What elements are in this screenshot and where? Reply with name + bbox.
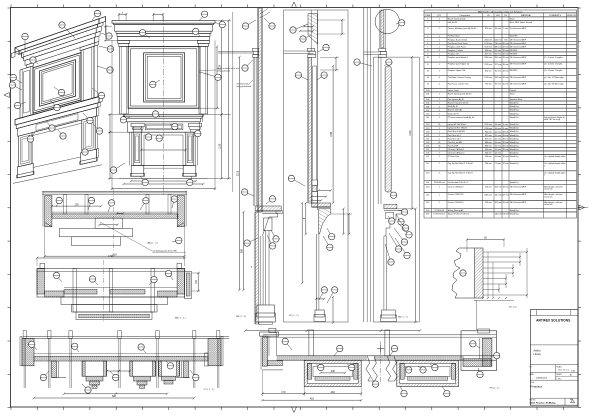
strip1 cleat bracket xyxy=(252,48,258,51)
svg-text:REV: REV xyxy=(570,399,573,401)
svg-text:Cornce_Moulding Liner (A) 40×4: Cornce_Moulding Liner (A) 40×40 xyxy=(448,27,476,30)
svg-text:1: 1 xyxy=(439,28,440,30)
svg-text:n: n xyxy=(544,165,545,167)
strip2 top dimension lines xyxy=(318,19,346,21)
plan centreline with cross xyxy=(380,341,382,384)
balloon callout xyxy=(442,386,447,394)
svg-text:Fireplace_Column: Fireplace_Column xyxy=(448,49,463,52)
svg-text:101: 101 xyxy=(426,94,429,96)
svg-text:1435: 1435 xyxy=(330,131,333,137)
CC post cap xyxy=(118,331,121,339)
strip2 corbel wedge xyxy=(319,209,331,234)
AA hatched band xyxy=(52,214,178,218)
svg-text:18h Veneered MDF: 18h Veneered MDF xyxy=(510,201,527,204)
left border arrow marker xyxy=(4,93,10,98)
svg-text:2: 2 xyxy=(439,163,440,165)
strip2 mantel shelf slab section xyxy=(312,203,331,207)
svg-text:80 mm: 80 mm xyxy=(495,83,501,85)
svg-text:MR MDF: MR MDF xyxy=(510,70,518,72)
strip3 shelf slab xyxy=(384,204,397,209)
axo shelf left end return xyxy=(12,52,16,58)
svg-text:107 mm: 107 mm xyxy=(502,194,509,196)
CC post cap xyxy=(69,331,72,339)
svg-text:n: n xyxy=(544,175,545,177)
svg-text:103 mm: 103 mm xyxy=(495,186,502,188)
strip2 pilaster panel xyxy=(312,66,314,180)
strip1 mantel shelf slab section xyxy=(255,206,281,211)
balloon callout xyxy=(170,124,175,127)
svg-text:10 mm: 10 mm xyxy=(503,156,509,158)
strip3 pilaster board pill xyxy=(385,66,391,192)
balloon callout xyxy=(388,216,392,221)
svg-text:24/08/2023: 24/08/2023 xyxy=(536,378,548,380)
svg-text:4: 4 xyxy=(439,77,440,79)
balloon callout xyxy=(316,364,321,368)
elevation outer extension line xyxy=(232,12,234,192)
svg-text:Cornice CM110-19: Cornice CM110-19 xyxy=(448,201,464,204)
balloon callout xyxy=(43,371,49,378)
balloon callout xyxy=(141,347,146,353)
svg-text:n: n xyxy=(544,158,545,160)
balloon callout xyxy=(385,244,391,262)
svg-text:12: 12 xyxy=(427,70,429,72)
svg-text:18h Veneered MDF: 18h Veneered MDF xyxy=(510,76,527,79)
svg-text:PP ( 1 : 5 ): PP ( 1 : 5 ) xyxy=(289,315,299,317)
CC horizontal band xyxy=(34,356,208,361)
svg-text:Steel MS: Steel MS xyxy=(510,35,518,38)
balloon callout xyxy=(169,274,174,280)
axo crown slab left end face xyxy=(15,48,19,55)
right pilaster capital xyxy=(197,40,209,43)
svg-text:Shelf (A) 40: Shelf (A) 40 xyxy=(448,105,458,108)
BB right dim xyxy=(192,272,200,274)
svg-text:1: 1 xyxy=(439,202,440,204)
BB top dimension xyxy=(37,257,185,259)
svg-text:18 mm: 18 mm xyxy=(503,202,509,204)
svg-text:Cornice CM110-19: Cornice CM110-19 xyxy=(448,185,464,188)
balloon callout xyxy=(13,78,22,84)
axo right leg xyxy=(82,117,95,153)
svg-text:return lots: return lots xyxy=(544,188,552,191)
svg-text:Cap Top Rail 100×27.5 40×20: Cap Top Rail 100×27.5 40×20 xyxy=(448,162,473,165)
svg-text:Bracket Keystone 40×40: Bracket Keystone 40×40 xyxy=(448,102,469,105)
balloon callout xyxy=(267,235,273,246)
svg-text:870 mm: 870 mm xyxy=(485,28,492,30)
balloon callout xyxy=(99,46,111,49)
balloon callout xyxy=(246,20,257,26)
svg-text:3: 3 xyxy=(427,28,428,30)
svg-text:16 mm: 16 mm xyxy=(503,83,509,85)
svg-text:Hearth honed granite 40×40: Hearth honed granite 40×40 xyxy=(448,93,472,96)
balloon callout xyxy=(264,18,272,26)
svg-text:RR ( 1 : 1 ): RR ( 1 : 1 ) xyxy=(490,388,500,390)
CC leg box 3 xyxy=(159,361,180,376)
balloon callout xyxy=(57,275,63,282)
svg-text:(2 s 1) mitre 1 lengths: (2 s 1) mitre 1 lengths xyxy=(544,69,562,72)
balloon callout xyxy=(50,100,57,108)
strip2 wall lines xyxy=(310,10,312,51)
svg-text:BB ( 1 : 2 ): BB ( 1 : 2 ) xyxy=(175,318,186,320)
balloon callout xyxy=(75,346,79,352)
strip2 crown return bracket xyxy=(308,48,315,51)
balloon callout xyxy=(93,279,99,285)
svg-text:2m+ daylate length add-o: 2m+ daylate length add-o xyxy=(544,155,565,158)
svg-text:18h Veneered MDF: 18h Veneered MDF xyxy=(510,45,527,48)
CC post cap xyxy=(193,331,196,339)
svg-text:Pan.Plinct tall 2: Pan.Plinct tall 2 xyxy=(448,137,461,140)
plan posts xyxy=(309,330,314,356)
svg-text:2134: 2134 xyxy=(409,130,412,136)
svg-text:18 mm: 18 mm xyxy=(503,70,509,72)
svg-text:QTY: QTY xyxy=(437,15,442,17)
right leg xyxy=(186,132,194,165)
balloon callout xyxy=(430,364,435,368)
svg-text:Wood(Oa): Wood(Oa) xyxy=(510,110,519,112)
svg-text:13: 13 xyxy=(427,77,429,79)
balloon callout xyxy=(58,130,63,136)
svg-text:10: 10 xyxy=(427,57,429,59)
balloon callout xyxy=(200,72,219,77)
CC top rails xyxy=(23,336,229,338)
balloon callout xyxy=(143,33,150,38)
right leg capital under shelf xyxy=(188,123,201,127)
right base block xyxy=(183,165,196,176)
left outer jamb lines xyxy=(129,132,131,165)
axo overmantel panel xyxy=(33,53,81,114)
parts list table xyxy=(424,10,576,218)
svg-text:Infill 40×40: Infill 40×40 xyxy=(448,21,457,24)
svg-text:Primed: Primed xyxy=(510,89,516,92)
svg-text:Cornice CM107-W: Cornice CM107-W xyxy=(448,193,464,196)
balloon callout xyxy=(108,203,112,212)
svg-text:Wood(Oa): Wood(Oa) xyxy=(510,156,519,158)
balloon callout xyxy=(172,199,174,208)
svg-text:10 mm: 10 mm xyxy=(503,163,509,165)
balloon callout xyxy=(396,214,401,222)
svg-text:Wood(Oa): Wood(Oa) xyxy=(510,142,519,144)
axo shelf frieze xyxy=(18,108,97,137)
svg-text:16 mm: 16 mm xyxy=(503,77,509,79)
svg-text:Wood(Oa): Wood(Oa) xyxy=(510,124,519,126)
strip1 wall board lower xyxy=(255,212,258,324)
svg-text:FILE NO.: FILE NO. xyxy=(530,400,537,402)
AA bottom dimension xyxy=(44,224,46,258)
detail BB plan section through frieze xyxy=(36,255,200,322)
AA top rails xyxy=(42,190,187,192)
svg-text:ends TBC fire early: ends TBC fire early xyxy=(544,118,560,121)
balloon callout xyxy=(24,37,26,53)
balloon callout xyxy=(460,270,466,276)
balloon callout xyxy=(56,201,59,208)
table column lines xyxy=(431,13,433,218)
balloon callout xyxy=(490,355,497,357)
svg-text:1890 mm: 1890 mm xyxy=(484,57,492,59)
svg-text:Component: Component xyxy=(459,14,470,17)
BB right appendage xyxy=(185,272,192,299)
right pilaster body xyxy=(199,47,208,114)
balloon callout xyxy=(172,241,179,243)
strip1 wall hatched board xyxy=(259,8,262,212)
balloon callout xyxy=(140,201,146,210)
plan right corner L detail xyxy=(461,331,497,371)
balloon callout xyxy=(199,14,205,21)
W bottom ticks xyxy=(482,297,484,299)
svg-text:178: 178 xyxy=(75,203,80,206)
svg-text:312: 312 xyxy=(426,202,429,204)
svg-text:Wood(Oa): Wood(Oa) xyxy=(510,128,519,130)
balloon callout xyxy=(285,341,292,350)
svg-text:CC ( 1 : 2 ): CC ( 1 : 2 ) xyxy=(204,389,215,391)
svg-text:127: 127 xyxy=(426,156,429,158)
CC post cap xyxy=(217,331,220,339)
balloon callout xyxy=(318,48,326,53)
shelf end returns xyxy=(123,114,125,122)
svg-text:160 mm: 160 mm xyxy=(495,77,502,79)
balloon callout xyxy=(303,35,311,39)
balloon callout xyxy=(190,370,196,378)
svg-text:Wood(Oa): Wood(Oa) xyxy=(510,163,519,165)
svg-text:160 mm: 160 mm xyxy=(495,57,502,59)
elevation vertical centerline xyxy=(163,16,165,196)
top border arrow marker xyxy=(292,2,297,8)
AA stepped shelf edge xyxy=(59,228,132,237)
balloon callout xyxy=(193,134,198,137)
svg-text:Fireplace panel blown cl: Fireplace panel blown cl xyxy=(448,56,469,59)
strip3 corbel steps xyxy=(384,210,402,236)
shelf frieze centre tablet xyxy=(145,124,183,130)
balloon callout xyxy=(140,176,145,182)
balloon callout xyxy=(245,60,253,68)
address cell xyxy=(530,364,578,366)
svg-text:1700×88 mm: 1700×88 mm xyxy=(434,181,446,184)
svg-text:PJ Rose 10m: PJ Rose 10m xyxy=(448,156,460,158)
AA batten xyxy=(64,195,67,214)
AA batten xyxy=(146,195,149,214)
AA centreline xyxy=(112,189,114,252)
svg-text:SHEET: SHEET xyxy=(557,374,562,376)
svg-text:18h Veneered MDF: 18h Veneered MDF xyxy=(510,63,527,66)
svg-text:852 mm: 852 mm xyxy=(485,70,492,72)
axo frieze band xyxy=(25,38,94,66)
balloon callout xyxy=(33,60,38,64)
balloon callout xyxy=(101,33,109,36)
AA left end block xyxy=(45,196,52,227)
balloon 1 overmantel panel xyxy=(153,80,160,84)
balloon callout xyxy=(404,366,409,370)
balloon callout xyxy=(190,176,192,182)
svg-text:185 mm: 185 mm xyxy=(495,194,502,196)
CC leg box 1 xyxy=(82,361,107,376)
plan box 2 (right leg section) xyxy=(397,360,459,386)
plan left corner return xyxy=(260,332,279,336)
vertical section detail 2 (section through mantel leg) xyxy=(284,10,353,324)
axo crown shelf slab xyxy=(15,19,99,52)
strip2 dims mid xyxy=(332,66,334,203)
strip2 wall hatched board xyxy=(309,58,312,203)
svg-text:1728: 1728 xyxy=(108,255,114,258)
svg-text:(2 s 1) mitre 1 lengths: (2 s 1) mitre 1 lengths xyxy=(544,63,562,66)
AA right mitre xyxy=(177,223,184,227)
svg-text:Wood(Oa): Wood(Oa) xyxy=(510,106,519,108)
svg-text:248: 248 xyxy=(331,391,336,394)
axo crown band1 end xyxy=(19,51,22,56)
balloon callout xyxy=(149,137,152,140)
strip3 detail circle xyxy=(375,9,399,33)
svg-text:Pan.System (A) 40: Pan.System (A) 40 xyxy=(448,98,464,101)
svg-text:80 mm: 80 mm xyxy=(495,70,501,72)
svg-text:Pre-Veneered MDF: Pre-Veneered MDF xyxy=(510,27,527,30)
AA dim above band xyxy=(52,205,101,207)
left base block xyxy=(131,165,144,176)
hearth / floor line xyxy=(119,177,208,179)
svg-text:418: 418 xyxy=(310,397,315,400)
AA left mitre xyxy=(45,223,52,227)
W hatched backing board xyxy=(475,248,484,298)
svg-text:A1: A1 xyxy=(570,374,572,377)
balloon callout xyxy=(82,384,88,390)
svg-text:Lightg 100 Brs GWorld: Lightg 100 Brs GWorld xyxy=(448,127,467,130)
svg-text:1×075×50 mm: 1×075×50 mm xyxy=(433,213,446,216)
date row xyxy=(530,379,578,381)
svg-text:Cill stud_CA Back 1: Cill stud_CA Back 1 xyxy=(448,148,465,151)
CC post cap xyxy=(156,331,159,339)
balloon callout xyxy=(390,349,395,357)
strip3 right dims xyxy=(397,208,415,210)
left leg capital under shelf xyxy=(131,123,144,127)
svg-text:Pan.Blown Column Overlay: Pan.Blown Column Overlay xyxy=(448,76,471,79)
balloon callout xyxy=(215,23,222,25)
svg-text:18h Veneered MDF: 18h Veneered MDF xyxy=(510,185,527,188)
axonometric perspective view of fireplace xyxy=(9,10,114,183)
svg-text:1: 1 xyxy=(439,117,440,119)
strip1 top leader lines xyxy=(260,9,268,15)
extension line below W detail xyxy=(476,300,478,330)
svg-text:Pan.Plinct left 1: Pan.Plinct left 1 xyxy=(448,134,461,137)
svg-text:Lightg MR 100 White2: Lightg MR 100 White2 xyxy=(448,123,467,126)
strip1 panel layer lines xyxy=(252,57,254,206)
svg-text:Cill stud_CA Back 2: Cill stud_CA Back 2 xyxy=(448,152,465,155)
balloon callout xyxy=(400,386,404,394)
svg-text:COMMENTS: COMMENTS xyxy=(549,15,562,17)
balloon callout xyxy=(83,113,90,121)
axo mantel shelf xyxy=(15,97,99,125)
front elevation view of fireplace xyxy=(104,11,240,215)
elevation crown cornice xyxy=(112,21,215,24)
svg-text:18 mm: 18 mm xyxy=(503,186,509,188)
BB hatched strip xyxy=(64,290,97,295)
strip3 bracket xyxy=(379,48,386,51)
table data rows xyxy=(424,17,576,21)
axo floor line xyxy=(13,165,102,184)
svg-text:Stainless Steel: Stainless Steel xyxy=(510,98,523,101)
balloon callout xyxy=(399,224,409,235)
axo right pilaster xyxy=(81,46,94,101)
axo opening xyxy=(32,120,82,133)
CC post cap xyxy=(23,331,26,339)
balloon callout xyxy=(398,210,405,212)
svg-text:Brick, MDF Yellow, Herited: Brick, MDF Yellow, Herited xyxy=(510,21,532,24)
balloon callout xyxy=(473,344,480,348)
svg-text:1: 1 xyxy=(439,22,440,24)
svg-text:lamp paintwork: lamp paintwork xyxy=(217,70,230,73)
balloon callout xyxy=(398,219,406,228)
balloon callout xyxy=(271,230,276,239)
svg-text:2m+ daylate length add-o: 2m+ daylate length add-o xyxy=(544,162,565,165)
svg-text:Stone: Stone xyxy=(510,18,515,21)
svg-text:return lots: return lots xyxy=(544,203,552,206)
strip1 corbel below shelf xyxy=(262,213,277,236)
svg-text:307: 307 xyxy=(426,182,429,184)
balloon callout xyxy=(245,192,254,196)
shelf frieze xyxy=(128,122,200,132)
balloon callout xyxy=(418,366,423,370)
strip1 base block xyxy=(257,305,274,317)
strip1 soffit lines xyxy=(218,50,253,52)
svg-text:1:10, 1:5, 1:2: 1:10, 1:5, 1:2 xyxy=(558,370,571,372)
svg-text:18 mm: 18 mm xyxy=(503,57,509,59)
balloon callout xyxy=(88,201,92,211)
svg-text:A-Ray_Skirting A1: A-Ray_Skirting A1 xyxy=(448,209,463,212)
svg-text:Wood(Oa): Wood(Oa) xyxy=(510,135,519,137)
balloon callout xyxy=(384,62,389,66)
svg-text:1599 mm: 1599 mm xyxy=(484,64,492,66)
vertical section detail 1 (wall section through overmantel) xyxy=(218,8,282,325)
balloon callout xyxy=(357,62,372,66)
svg-text:Carlisle dado 100×11×3: Carlisle dado 100×11×3 xyxy=(448,181,468,184)
svg-text:Wood(Oa): Wood(Oa) xyxy=(510,138,519,140)
svg-text:MK ( 1 : 4 ): MK ( 1 : 4 ) xyxy=(236,316,246,318)
svg-text:PJ Plate Steel: PJ Plate Steel xyxy=(448,35,460,38)
svg-text:Hearth honed granite: Hearth honed granite xyxy=(448,18,466,21)
svg-text:1: 1 xyxy=(439,194,440,196)
svg-text:PJ fixture compact band (A)_40: PJ fixture compact band (A)_40 xyxy=(448,116,474,119)
svg-text:Wood(Oa): Wood(Oa) xyxy=(510,214,519,216)
CC leg box 2 xyxy=(130,361,156,376)
balloon callout xyxy=(389,233,399,249)
svg-text:213: 213 xyxy=(426,173,429,175)
balloon callout xyxy=(319,290,324,300)
title block xyxy=(530,310,579,406)
balloon callout xyxy=(31,132,36,139)
BB post xyxy=(151,269,154,313)
strip3 base xyxy=(382,310,396,318)
svg-text:Library: Library xyxy=(534,353,542,356)
CC left end block xyxy=(22,338,34,365)
svg-text:18 mm: 18 mm xyxy=(503,64,509,66)
strip3 wall lines lower xyxy=(377,57,379,204)
axo crown moldings xyxy=(19,24,98,54)
svg-text:Wood(Oa): Wood(Oa) xyxy=(510,113,519,115)
BB stepped tiers xyxy=(61,297,168,305)
W top dimension xyxy=(467,239,504,241)
svg-text:11: 11 xyxy=(427,64,429,66)
svg-text:1: 1 xyxy=(439,64,440,66)
revision triangle xyxy=(571,399,575,402)
balloon callout xyxy=(347,364,352,368)
AA centre tablet xyxy=(95,218,122,228)
svg-text:212: 212 xyxy=(426,163,429,165)
svg-text:Wood(Oa): Wood(Oa) xyxy=(510,103,519,105)
svg-text:2m+ daylate length add-o: 2m+ daylate length add-o xyxy=(544,171,565,174)
svg-text:TH: TH xyxy=(504,15,507,17)
left pilaster capital xyxy=(118,40,130,43)
svg-text:111: 111 xyxy=(426,117,429,119)
strip2 leg verticals xyxy=(315,234,317,310)
mantel shelf xyxy=(124,114,204,116)
svg-text:ARTIFEX SOLUTIONS: ARTIFEX SOLUTIONS xyxy=(536,319,571,323)
plan top rails xyxy=(263,334,496,336)
title block top strip xyxy=(530,314,578,316)
